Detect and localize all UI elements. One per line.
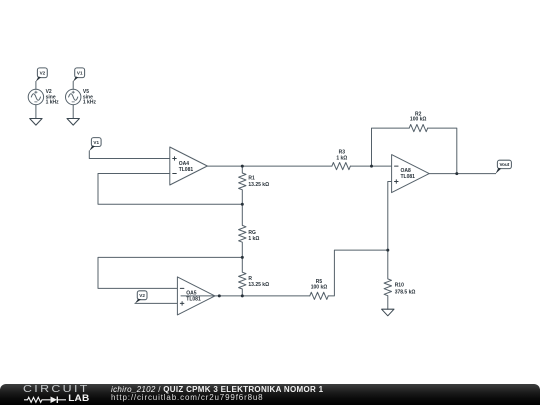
voltage source V5 (sine): [66, 82, 81, 119]
svg-text:V2: V2: [139, 293, 145, 298]
junction node E (R2 left / R3): [370, 165, 373, 168]
node flag V2 (top source): [36, 68, 48, 82]
junction node D (R bottom / OA5 out): [241, 294, 244, 297]
wire R2 feedback loop: [372, 128, 410, 166]
resistor R 13.25 kOhm (vertical): [239, 257, 246, 295]
node flag V1 (OA4 input): [89, 138, 101, 151]
wire R2 to output node: [428, 128, 457, 174]
svg-text:378.5 kΩ: 378.5 kΩ: [395, 290, 416, 296]
junction node at OA5 output pin: [218, 294, 221, 297]
resistor R1 13.25 kOhm (vertical): [239, 166, 246, 204]
svg-text:13.25 kΩ: 13.25 kΩ: [248, 282, 269, 288]
wire OA4 output to node A: [207, 165, 242, 167]
wire node A to R3: [242, 165, 332, 167]
wire RG bottom loop to OA5 inverting input: [98, 257, 242, 288]
label R5: [311, 279, 328, 291]
svg-text:TL081: TL081: [401, 174, 416, 180]
label V5 sine 1 kHz: [83, 89, 97, 105]
svg-text:TL081: TL081: [186, 296, 201, 302]
wire OA5 output line (crosses under symbol) to R5: [181, 295, 310, 297]
label RG: [248, 230, 259, 242]
svg-text:V1: V1: [93, 140, 99, 145]
ground (under R10): [382, 309, 394, 316]
resistor R5 100 kOhm (horizontal): [310, 292, 329, 299]
label R2: [410, 111, 427, 122]
svg-text:TL081: TL081: [179, 167, 194, 173]
svg-text:R1: R1: [248, 175, 255, 181]
node flag V1 (top source): [73, 68, 85, 82]
label R: [248, 276, 269, 288]
junction node F (R2 right / OA8 out): [455, 172, 458, 175]
ground (under V5): [67, 119, 79, 126]
junction node C (RG/R): [241, 256, 244, 259]
svg-text:1 kHz: 1 kHz: [83, 100, 97, 106]
svg-text:1 kHz: 1 kHz: [46, 100, 60, 106]
wire R5 to summing node: [328, 250, 388, 296]
svg-text:1 kΩ: 1 kΩ: [336, 155, 347, 161]
label R3: [336, 149, 347, 161]
resistor R10 378.5 kOhm (vertical): [384, 250, 391, 309]
label R1: [248, 175, 269, 188]
svg-text:100 kΩ: 100 kΩ: [311, 285, 328, 291]
label V2 sine 1 kHz: [46, 89, 60, 105]
op-amp OA5 TL081: [177, 277, 215, 315]
junction node B (R1/RG, feedback): [241, 203, 244, 206]
junction node A (R1 top): [241, 165, 244, 168]
svg-text:13.25 kΩ: 13.25 kΩ: [248, 182, 269, 188]
ground (under V2): [30, 119, 42, 126]
svg-text:Vout: Vout: [499, 162, 509, 167]
wire R3 to OA8 inverting input: [350, 165, 391, 167]
node flag V2 (OA5 input): [135, 291, 147, 304]
svg-text:V2: V2: [40, 71, 46, 76]
resistor R3 1 kOhm (horizontal): [332, 163, 351, 170]
wire V2 flag to OA5 + input: [135, 302, 178, 304]
CircuitLab logo: [23, 386, 98, 404]
op-amp OA8 TL081: [392, 155, 430, 193]
svg-text:1 kΩ: 1 kΩ: [248, 236, 259, 242]
voltage source V2 (sine): [28, 82, 43, 119]
wire OA8 non-inverting input down to summing node: [388, 182, 392, 251]
label R10: [395, 283, 416, 296]
wire V1 flag to OA4 + input: [89, 151, 170, 159]
resistor R2 100 kOhm (horizontal): [409, 125, 428, 132]
wire OA4 inverting feedback (left loop): [98, 174, 242, 205]
svg-text:100 kΩ: 100 kΩ: [410, 116, 427, 122]
op-amp OA4 TL081: [170, 147, 208, 185]
wire OA8 output to Vout: [429, 173, 495, 175]
svg-text:V1: V1: [77, 71, 83, 76]
svg-text:RG: RG: [248, 230, 256, 236]
junction node G (R5/R10/OA8+): [386, 249, 389, 252]
resistor RG 1 kOhm (vertical): [239, 204, 246, 257]
node flag Vout: [496, 160, 512, 174]
svg-text:R10: R10: [395, 283, 404, 289]
